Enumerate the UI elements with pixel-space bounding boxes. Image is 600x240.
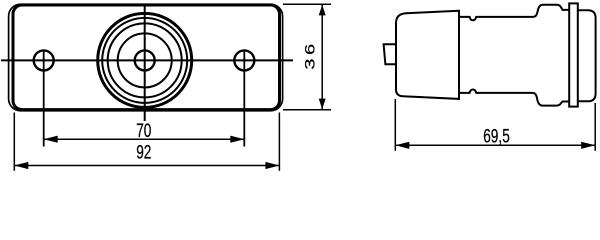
side view: gasket seal xyxy=(569,3,578,106)
mounting hole left xyxy=(34,50,54,70)
dim 92 arrow left xyxy=(14,162,28,169)
dim 36 extension bottom xyxy=(283,109,331,111)
side view: lens dome xyxy=(396,11,459,99)
svg-text:92: 92 xyxy=(136,141,151,163)
dim 36 line xyxy=(321,5,323,109)
dim 69,5 line xyxy=(395,144,595,146)
lens center circle xyxy=(135,50,155,70)
lens ring 4 xyxy=(118,33,172,87)
dim 36 arrow up xyxy=(319,5,326,16)
dim 69,5 extension left xyxy=(394,99,396,151)
dim 36 extension top xyxy=(283,3,331,5)
dim 69,5 arrow left xyxy=(395,142,409,149)
horizontal centerline xyxy=(1,59,293,61)
dim 92 arrow right xyxy=(265,162,279,169)
side view: body bottom profile xyxy=(459,90,570,106)
side view: body top profile xyxy=(459,5,570,21)
side view: cable tab xyxy=(384,44,396,64)
vertical centerline xyxy=(144,4,146,122)
dim 92 extension left xyxy=(13,113,15,171)
hole left centerline / extension xyxy=(43,50,45,147)
dim 69,5 extension right xyxy=(594,103,596,151)
front view: outer housing outline xyxy=(9,4,283,111)
mounting hole right xyxy=(234,50,254,70)
svg-text:69,5: 69,5 xyxy=(483,125,510,147)
svg-text:70: 70 xyxy=(136,120,151,142)
dim 36 arrow down xyxy=(319,99,326,110)
front view: lens body outline xyxy=(13,5,280,110)
dim 69,5 arrow right xyxy=(581,142,595,149)
hole right centerline / extension xyxy=(243,50,245,147)
lens ring 3 xyxy=(108,23,182,97)
lens ring 2 xyxy=(102,18,187,103)
dim 92 extension right xyxy=(278,113,280,171)
dim 70 arrow right xyxy=(230,136,244,143)
dim 92 line xyxy=(14,165,279,167)
dim 70 arrow left xyxy=(44,136,58,143)
side view: mounting flange xyxy=(578,10,595,101)
lens ring outer xyxy=(98,13,192,107)
dim 70 line xyxy=(44,138,245,140)
svg-text:36: 36 xyxy=(301,40,317,69)
